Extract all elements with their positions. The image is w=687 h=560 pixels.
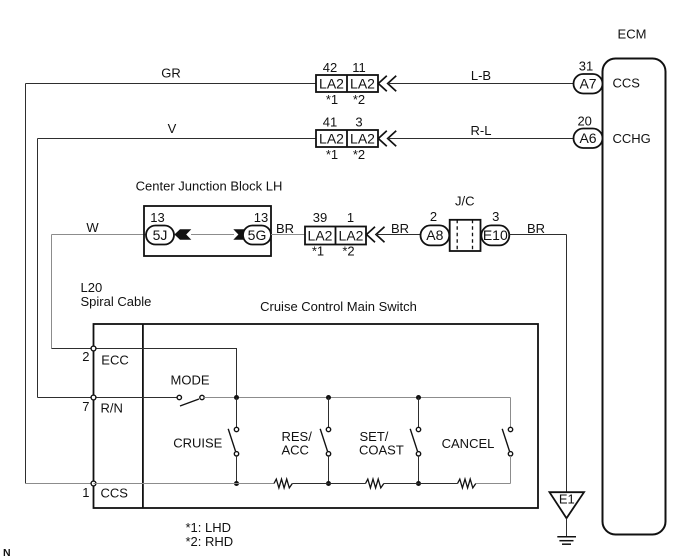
- svg-text:W: W: [86, 220, 99, 235]
- junction dot (RES top): [326, 395, 331, 400]
- wire R/N inside box to MODE: [94, 397, 178, 399]
- chevron arrows (row 2): [378, 131, 396, 146]
- junction dot (CRUISE bottom): [234, 481, 239, 486]
- svg-text:ACC: ACC: [282, 443, 309, 458]
- svg-text:BR: BR: [527, 221, 545, 236]
- wire R/N: [38, 397, 94, 399]
- wire CCS bus segment 1: [94, 483, 275, 485]
- svg-text:*2: *2: [353, 92, 365, 107]
- switch MODE: [177, 395, 204, 406]
- connector LA2 pair (row 2): [316, 130, 378, 147]
- svg-text:LA2: LA2: [308, 228, 333, 244]
- connector 5G: [243, 226, 271, 245]
- svg-text:LA2: LA2: [319, 76, 344, 92]
- terminal circle CCS: [91, 481, 96, 486]
- svg-text:20: 20: [577, 114, 591, 129]
- wire ECC inside box: [94, 349, 237, 398]
- connector A6: [574, 129, 603, 149]
- switch SET/COAST: [410, 398, 420, 484]
- svg-text:5J: 5J: [153, 227, 168, 243]
- svg-text:CCHG: CCHG: [613, 131, 651, 146]
- junction connector J/C box: [450, 220, 481, 251]
- svg-text:*1: *1: [326, 92, 338, 107]
- svg-text:V: V: [168, 121, 177, 136]
- resistor R1: [274, 479, 292, 488]
- resistor R2: [366, 479, 384, 488]
- svg-text:A8: A8: [426, 227, 443, 243]
- svg-text:41: 41: [323, 115, 337, 130]
- wire BR to A8: [376, 234, 421, 236]
- connector LA2 pair (row 3): [305, 227, 366, 245]
- wire V vertical left: [37, 139, 39, 398]
- svg-text:CCS: CCS: [101, 486, 129, 501]
- svg-text:*2: *2: [342, 244, 354, 259]
- switch RES/ACC: [320, 398, 330, 484]
- svg-text:*1: *1: [312, 244, 324, 259]
- svg-text:R/N: R/N: [101, 401, 123, 416]
- svg-text:A6: A6: [579, 130, 596, 146]
- svg-text:LA2: LA2: [319, 131, 344, 147]
- wire 5G to LA2: [271, 234, 305, 236]
- svg-text:A7: A7: [579, 76, 596, 92]
- switch box inner divider: [142, 324, 144, 508]
- svg-text:N: N: [3, 547, 11, 559]
- svg-text:3: 3: [492, 209, 499, 224]
- svg-text:J/C: J/C: [455, 194, 475, 209]
- svg-text:Cruise Control Main Switch: Cruise Control Main Switch: [260, 299, 417, 314]
- arrow left (junction block): [174, 229, 191, 240]
- svg-text:39: 39: [313, 210, 327, 225]
- wire CCS into box: [26, 483, 94, 485]
- svg-text:7: 7: [82, 399, 89, 414]
- label RES/ACC: [282, 429, 313, 458]
- svg-text:LA2: LA2: [350, 131, 375, 147]
- svg-text:ECM: ECM: [618, 27, 647, 42]
- svg-text:GR: GR: [161, 66, 181, 81]
- wire R/N bus: [204, 397, 510, 399]
- svg-text:ECC: ECC: [101, 353, 128, 368]
- label SET/COAST: [359, 429, 404, 458]
- wire down to E1: [566, 235, 568, 493]
- svg-text:11: 11: [352, 60, 366, 75]
- svg-text:L20: L20: [81, 280, 103, 295]
- svg-text:CRUISE: CRUISE: [173, 436, 222, 451]
- svg-text:L-B: L-B: [471, 68, 491, 83]
- svg-text:LA2: LA2: [350, 76, 375, 92]
- cruise control main switch box: [94, 324, 539, 508]
- svg-text:E1: E1: [559, 492, 575, 507]
- ground symbol: [557, 537, 576, 545]
- terminal circle ECC: [91, 346, 96, 351]
- svg-text:5G: 5G: [248, 227, 267, 243]
- svg-text:42: 42: [323, 60, 337, 75]
- svg-text:13: 13: [150, 210, 164, 225]
- svg-text:*2: RHD: *2: RHD: [186, 534, 234, 549]
- svg-text:2: 2: [430, 209, 437, 224]
- ground E1 triangle: [550, 492, 585, 519]
- chevron arrows (row 3): [367, 227, 385, 242]
- svg-text:1: 1: [82, 485, 89, 500]
- svg-text:CANCEL: CANCEL: [442, 436, 495, 451]
- switch CANCEL: [502, 398, 513, 484]
- wire ECC: [52, 348, 94, 350]
- svg-text:31: 31: [579, 59, 593, 74]
- connector E10: [481, 225, 509, 245]
- junction dot (ECC/RN/CRUISE): [234, 395, 239, 400]
- junction dot (SET top): [416, 395, 421, 400]
- connector LA2 pair (row 1): [316, 75, 378, 92]
- wire CCS bus segment 4: [476, 483, 511, 485]
- junction block box: [144, 206, 271, 256]
- svg-text:R-L: R-L: [471, 123, 492, 138]
- wire R-L (row 2): [388, 138, 574, 140]
- wire L-B (row 1): [388, 83, 574, 85]
- wire CCS bus segment 2: [292, 483, 365, 485]
- resistor R3: [458, 479, 476, 488]
- wire inside junction block: [191, 234, 234, 236]
- junction dot (RES bottom): [326, 481, 331, 486]
- wire GR horizontal (row 1): [26, 83, 317, 85]
- svg-text:2: 2: [82, 349, 89, 364]
- svg-text:Spiral Cable: Spiral Cable: [81, 294, 152, 309]
- connector 5J: [146, 226, 174, 245]
- chevron arrows (row 1): [378, 76, 396, 91]
- svg-text:*1: *1: [326, 147, 338, 162]
- wire W horizontal (row 3): [52, 234, 147, 236]
- junction dot (SET bottom): [416, 481, 421, 486]
- svg-text:3: 3: [355, 115, 362, 130]
- wire V horizontal (row 2): [38, 138, 317, 140]
- arrow right (junction block): [233, 229, 250, 240]
- svg-text:MODE: MODE: [171, 373, 210, 388]
- terminal circle R/N: [91, 395, 96, 400]
- switch CRUISE: [228, 398, 239, 484]
- connector A8: [421, 225, 450, 245]
- wire CCS bus segment 3: [384, 483, 458, 485]
- svg-text:13: 13: [254, 210, 268, 225]
- wire E1 to ground: [566, 518, 568, 537]
- svg-text:*2: *2: [353, 147, 365, 162]
- svg-text:COAST: COAST: [359, 443, 404, 458]
- ECM block U1: [603, 59, 666, 535]
- wire W vertical left: [51, 235, 53, 349]
- svg-text:LA2: LA2: [339, 228, 364, 244]
- svg-text:*1: LHD: *1: LHD: [186, 520, 232, 535]
- connector A7: [574, 74, 603, 94]
- wire E10 to ground corner: [509, 234, 566, 236]
- svg-text:BR: BR: [391, 221, 409, 236]
- svg-text:1: 1: [347, 210, 354, 225]
- wire GR vertical left: [25, 84, 27, 484]
- svg-text:BR: BR: [276, 221, 294, 236]
- svg-text:Center Junction Block LH: Center Junction Block LH: [136, 179, 283, 194]
- svg-text:E10: E10: [483, 227, 508, 243]
- svg-text:CCS: CCS: [613, 76, 641, 91]
